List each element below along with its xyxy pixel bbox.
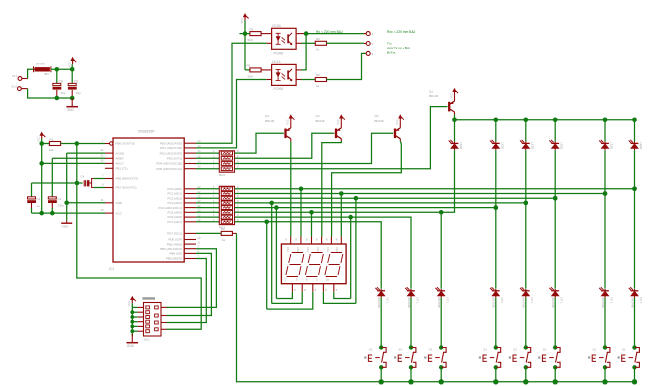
svg-text:PD4 (ADC4/OC1B): PD4 (ADC4/OC1B) [156,162,182,166]
svg-text:1u: 1u [37,204,41,208]
svg-text:DT L: DT L [530,298,534,304]
svg-text:14: 14 [198,154,201,158]
svg-text:560: 560 [248,38,253,42]
svg-text:DT L: DT L [386,298,390,304]
svg-text:D: D [306,279,308,282]
svg-text:PC4 (ADC4/OC1): PC4 (ADC4/OC1) [158,206,182,210]
svg-text:VCC: VCC [286,119,290,125]
svg-text:PB6 (MISO/XT2): PB6 (MISO/XT2) [116,177,139,181]
svg-text:BAJ MB: BAJ MB [630,298,634,308]
svg-text:VCC: VCC [449,93,453,99]
svg-text:VCC: VCC [37,136,41,142]
svg-text:PD3 (INT1): PD3 (INT1) [167,157,182,161]
svg-text:LED1: LED1 [500,143,504,150]
svg-text:14: 14 [198,160,201,164]
svg-text:BxTxx: BxTxx [387,51,396,55]
svg-text:xx-xxx: xx-xxx [36,62,45,66]
svg-text:BAJ MB: BAJ MB [522,298,526,308]
svg-text:BAJ MB: BAJ MB [492,298,496,308]
svg-text:C8: C8 [59,80,63,84]
svg-text:1k: 1k [316,48,320,52]
svg-text:OC1A: OC1A [272,60,282,64]
svg-text:BAJ MB: BAJ MB [601,298,605,308]
svg-text:BD136: BD136 [316,119,326,123]
svg-text:S1: S1 [483,348,487,352]
svg-text:VCC: VCC [127,301,131,307]
svg-text:PC5 (AD5): PC5 (AD5) [167,211,182,215]
svg-text:22: 22 [198,204,201,208]
svg-text:20: 20 [198,236,201,240]
svg-text:22: 22 [198,218,201,222]
svg-text:DT L: DT L [560,298,564,304]
svg-text:Rxx = 220 mm BAJ: Rxx = 220 mm BAJ [387,30,416,34]
svg-text:10: 10 [100,208,104,212]
svg-text:AVCC: AVCC [116,162,125,166]
svg-text:PD2 (ADC/INT0): PD2 (ADC/INT0) [160,151,182,155]
svg-text:22: 22 [198,199,201,203]
svg-text:BAJ MB: BAJ MB [551,298,555,308]
svg-text:C: C [285,279,287,282]
svg-text:SV1: SV1 [144,338,150,342]
svg-text:LED1: LED1 [610,143,614,150]
svg-text:R2: R2 [221,227,225,231]
svg-text:Q1: Q1 [429,89,433,93]
svg-text:PB3 (AIN1/OC0): PB3 (AIN1/OC0) [160,247,182,251]
svg-text:PC2 (AD2): PC2 (AD2) [167,196,182,200]
svg-text:PD0 (ADC/RXD): PD0 (ADC/RXD) [160,141,182,145]
svg-text:32: 32 [100,153,104,157]
svg-text:DT L: DT L [639,298,643,304]
svg-text:PC3 (AD3): PC3 (AD3) [167,201,182,205]
svg-text:PD1 (ADC/TXD): PD1 (ADC/TXD) [160,146,182,150]
svg-text:PB4 (SS): PB4 (SS) [169,252,182,256]
svg-text:30: 30 [100,159,104,163]
svg-text:22: 22 [198,195,201,199]
svg-text:IC1: IC1 [109,267,114,271]
svg-text:PC6 (AD6): PC6 (AD6) [167,215,182,219]
svg-text:LED1: LED1 [639,143,643,150]
svg-text:R1: R1 [50,137,54,141]
svg-text:RN1: RN1 [219,173,225,177]
svg-text:DT L: DT L [415,298,419,304]
svg-text:C2: C2 [36,197,40,201]
svg-text:VCC: VCC [67,62,71,68]
svg-text:PB0 (XCK/T0): PB0 (XCK/T0) [116,142,135,146]
svg-text:CA1: CA1 [335,247,338,252]
svg-text:CA1: CA1 [306,247,309,252]
svg-text:1k: 1k [222,238,226,242]
svg-text:DT L: DT L [500,298,504,304]
svg-text:VCC: VCC [395,119,399,125]
svg-text:R4: R4 [316,37,320,41]
svg-text:PC7 (AD7): PC7 (AD7) [167,220,182,224]
svg-text:LED1: LED1 [459,143,463,150]
svg-text:PC0 (AD0): PC0 (AD0) [167,187,182,191]
svg-text:AGND: AGND [116,151,126,155]
svg-text:10k: 10k [49,148,54,152]
svg-text:OC1B: OC1B [272,24,281,28]
svg-text:14: 14 [198,139,201,143]
svg-text:S1: S1 [622,348,626,352]
svg-text:Q2: Q2 [316,114,320,118]
svg-text:22: 22 [198,213,201,217]
svg-text:CA1: CA1 [316,247,319,252]
svg-text:S1: S1 [399,348,403,352]
svg-text:S1: S1 [543,348,547,352]
svg-text:BAJ MB: BAJ MB [407,298,411,308]
svg-text:PB2 (AIN0): PB2 (AIN0) [167,242,182,246]
svg-text:Q2: Q2 [265,114,269,118]
svg-text:14: 14 [198,165,201,169]
svg-text:Q2: Q2 [375,114,379,118]
svg-text:GND: GND [116,201,124,205]
svg-text:PD7 (OC2): PD7 (OC2) [167,232,182,236]
svg-text:Tm: Tm [387,42,392,46]
svg-text:22: 22 [198,185,201,189]
svg-text:22: 22 [198,190,201,194]
svg-text:PB7 (SCK/XT1): PB7 (SCK/XT1) [116,186,137,190]
svg-text:14: 14 [198,149,201,153]
svg-text:GND: GND [67,108,75,112]
svg-text:AREF: AREF [116,157,124,161]
svg-text:CA1: CA1 [286,247,289,252]
svg-text:DT L: DT L [609,298,613,304]
svg-text:C4: C4 [81,175,85,179]
svg-text:CA1: CA1 [296,247,299,252]
svg-text:BAJ MB: BAJ MB [437,298,441,308]
svg-text:VCC: VCC [336,119,340,125]
svg-text:90S8535P: 90S8535P [138,130,155,134]
svg-text:11: 11 [101,198,104,202]
svg-text:R6: R6 [316,73,320,77]
svg-text:xxxx Tx xx + Bxx: xxxx Tx xx + Bxx [387,46,411,50]
svg-text:Rx = 220 mm BAJ: Rx = 220 mm BAJ [316,30,343,34]
svg-text:14: 14 [198,144,201,148]
svg-text:S1: S1 [513,348,517,352]
svg-text:DT L: DT L [446,298,450,304]
svg-text:C9: C9 [74,80,78,84]
svg-text:1k: 1k [316,84,320,88]
svg-text:PC900: PC900 [274,87,284,91]
svg-text:R5: R5 [247,64,251,68]
svg-text:C3: C3 [57,197,61,201]
svg-text:D: D [296,279,298,282]
svg-text:22p: 22p [76,91,81,95]
svg-text:S1: S1 [593,348,597,352]
svg-text:PC1 (AD1): PC1 (AD1) [167,192,182,196]
svg-text:100n: 100n [58,204,65,208]
svg-text:S1: S1 [369,348,373,352]
svg-text:CA1: CA1 [326,247,329,252]
svg-text:LED1: LED1 [560,143,564,150]
svg-text:VCC: VCC [240,18,244,24]
svg-text:BD136: BD136 [375,119,385,123]
svg-text:PD6 (ICP): PD6 (ICP) [168,238,182,242]
svg-text:PB1 (T1): PB1 (T1) [116,167,128,171]
svg-text:PC900: PC900 [274,51,284,55]
svg-text:S1: S1 [429,348,433,352]
svg-text:21: 21 [198,240,201,244]
svg-text:BAJ MB: BAJ MB [377,298,381,308]
svg-text:X1-2: X1-2 [12,84,18,88]
svg-text:PD5 (ADC5/OC1A): PD5 (ADC5/OC1A) [156,167,182,171]
svg-text:GND: GND [62,225,70,229]
svg-text:GND: GND [127,344,135,348]
svg-text:VCC: VCC [116,211,123,215]
svg-text:BD136: BD136 [429,94,439,98]
svg-text:31: 31 [100,148,104,152]
svg-text:8M: 8M [45,72,50,76]
svg-text:R3: R3 [250,27,254,31]
svg-text:560: 560 [248,74,253,78]
svg-text:D: D [316,279,318,282]
svg-text:22p: 22p [61,91,66,95]
svg-text:PB5 (MOSI): PB5 (MOSI) [166,257,182,261]
svg-text:22: 22 [198,209,201,213]
svg-text:BD136: BD136 [265,119,275,123]
svg-text:LED1: LED1 [530,143,534,150]
svg-text:X1-1: X1-1 [12,74,18,78]
